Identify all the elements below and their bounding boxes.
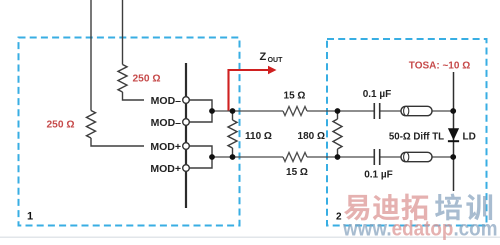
svg-text:MOD+: MOD+	[150, 163, 181, 175]
svg-text:LD: LD	[463, 132, 476, 143]
svg-text:250 Ω: 250 Ω	[47, 120, 75, 131]
svg-text:0.1 µF: 0.1 µF	[364, 170, 393, 181]
svg-text:0.1 µF: 0.1 µF	[363, 89, 392, 100]
svg-text:110 Ω: 110 Ω	[245, 131, 272, 142]
svg-text:180 Ω: 180 Ω	[298, 131, 325, 142]
svg-text:50-Ω Diff TL: 50-Ω Diff TL	[389, 132, 444, 143]
svg-text:1: 1	[27, 211, 33, 223]
svg-text:250 Ω: 250 Ω	[133, 74, 161, 85]
svg-text:15 Ω: 15 Ω	[284, 91, 306, 102]
svg-text:TOSA: ~10 Ω: TOSA: ~10 Ω	[409, 61, 470, 72]
svg-text:MOD–: MOD–	[151, 95, 181, 107]
svg-text:www.edatop.com: www.edatop.com	[342, 216, 497, 240]
svg-text:2: 2	[336, 212, 342, 223]
svg-text:MOD–: MOD–	[151, 117, 181, 129]
svg-text:MOD+: MOD+	[150, 141, 181, 153]
svg-text:15 Ω: 15 Ω	[286, 167, 308, 178]
svg-text:Z: Z	[260, 51, 267, 63]
svg-text:OUT: OUT	[268, 57, 284, 64]
